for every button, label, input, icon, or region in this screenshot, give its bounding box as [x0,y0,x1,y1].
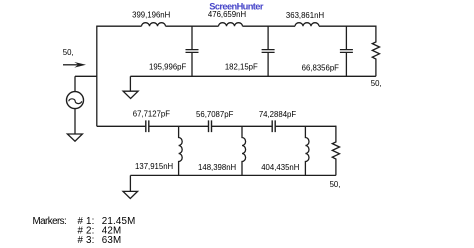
inductor L4 137,915nH [179,126,183,175]
source V1 circle [67,92,84,109]
svg-text:476,659nH: 476,659nH [208,10,246,19]
svg-text:137,915nH: 137,915nH [135,162,173,171]
svg-text:66,8356pF: 66,8356pF [302,64,340,73]
svg-text:63M: 63M [102,235,122,246]
wire ground drop G2 [129,175,131,191]
wire top rail segment 3 [243,25,296,27]
port arrow line [63,64,79,66]
svg-text:182,15pF: 182,15pF [225,63,258,72]
capacitor C3 plates [340,50,353,53]
inductor L2 476,659nH [219,23,243,26]
svg-text:Markers:: Markers: [33,216,67,227]
ground G1 [123,91,138,98]
svg-text:363,861nH: 363,861nH [286,11,324,20]
wire source top lead [74,76,76,92]
port arrow head [74,62,86,68]
wire top network bottom rail [130,75,376,77]
wire ground drop G1 [129,76,131,91]
ground G3 source [67,134,82,141]
capacitor C1 195,996pF leads [191,26,193,76]
svg-text:74,2884pF: 74,2884pF [259,110,297,119]
svg-text:50,: 50, [371,79,382,88]
capacitor C4 67,7127pF plates [146,120,149,132]
wire top rail segment 4 [319,25,376,27]
wire bottom network bottom rail [130,174,336,176]
wire bottom rail seg 2 [149,125,208,127]
capacitor C2 182,15pF leads [267,26,269,76]
svg-text:# 3:: # 3: [78,235,95,246]
svg-text:148,398nH: 148,398nH [198,163,236,172]
resistor R1 50 ohm top [372,26,379,77]
wire top rail segment 1 [97,25,142,27]
wire bottom rail seg 3 [212,125,272,127]
svg-text:50,: 50, [63,48,74,57]
resistor R2 50 ohm bottom [332,126,339,176]
ground G2 [123,191,138,198]
capacitor C1 plates [186,50,199,53]
capacitor C3 66,8356pF leads [345,26,347,76]
svg-text:195,996pF: 195,996pF [149,62,187,71]
svg-text:50,: 50, [330,180,341,189]
capacitor C6 74,2884pF plates [272,120,275,132]
svg-text:67,7127pF: 67,7127pF [133,110,171,119]
svg-text:56,7087pF: 56,7087pF [196,110,234,119]
source V1 sine [69,99,82,104]
inductor L3 363,861nH [295,23,319,26]
svg-text:404,435nH: 404,435nH [261,163,299,172]
inductor L1 399,196nH [142,23,166,26]
inductor L6 404,435nH [305,126,309,175]
svg-text:399,196nH: 399,196nH [132,10,170,19]
capacitor C2 plates [262,50,275,53]
wire bottom rail seg 4 [276,125,336,127]
wire source bottom lead [74,109,76,135]
wire bottom rail seg 1 [97,125,146,127]
wire top rail segment 2 [166,25,219,27]
wire input bus vertical [96,26,98,127]
capacitor C5 56,7087pF plates [209,120,212,132]
inductor L5 148,398nH [242,126,246,175]
wire source to bus [75,75,97,77]
